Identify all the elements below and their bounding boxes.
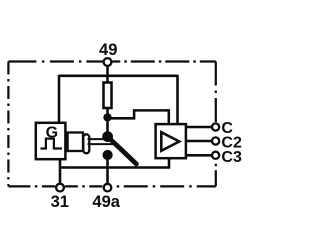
- switch lever (open, angled to lower right): [108, 137, 137, 164]
- relay housing outline left side (dash-dot): [7, 62, 9, 187]
- relay housing outline right side above terminal C (dash-dot): [215, 62, 217, 123]
- terminal 49a circle: [104, 184, 112, 192]
- relay housing outline bottom side left of terminal 31 (dash-dot): [8, 185, 55, 187]
- junction dot below resistor: [103, 113, 111, 121]
- wire: amplifier output to terminal C3: [187, 154, 213, 157]
- wire: pulse generator G down to terminal 31: [59, 160, 62, 184]
- wire: junction to amplifier second input (stepped): [108, 110, 169, 124]
- wire: riser from top bus down to pulse generator G: [58, 75, 61, 123]
- terminal 49 circle: [104, 58, 112, 66]
- svg-text:31: 31: [51, 193, 69, 211]
- relay coil actuator body: [68, 133, 83, 152]
- wire: amplifier output to terminal C2: [187, 140, 213, 143]
- relay housing outline right side below terminal C3 (dash-dot): [215, 161, 217, 187]
- wire: resistor to junction: [106, 108, 109, 118]
- svg-text:49: 49: [99, 41, 117, 59]
- amplifier triangle symbol: [161, 132, 179, 151]
- amplifier block U (electronic unit): [156, 124, 186, 158]
- wire: lower contact down to terminal 49a: [106, 155, 109, 183]
- switch lower contact dot: [103, 150, 113, 160]
- terminal 31 circle: [56, 184, 64, 192]
- wire: top supply bus from G riser to amplifier riser: [59, 75, 178, 78]
- switch pivot contact dot: [102, 131, 113, 142]
- svg-text:49a: 49a: [92, 193, 120, 211]
- wire: riser from top bus down to amplifier input: [176, 75, 179, 124]
- terminal C3 circle: [212, 152, 219, 159]
- relay coil actuator plunger cap: [83, 134, 89, 153]
- terminal C2 circle: [212, 137, 219, 144]
- relay housing outline top side left of terminal 49 (dash-dot): [8, 60, 102, 62]
- pulse generator block G: [36, 123, 66, 159]
- relay housing outline bottom side between terminals 31 and 49a (dash-dot): [65, 185, 103, 187]
- terminal C circle: [212, 123, 219, 130]
- square pulse symbol inside G block: [41, 139, 62, 149]
- wire: junction down to switch pivot contact: [106, 117, 109, 137]
- wire: amplifier output to terminal C: [187, 126, 213, 129]
- actuator fork lower rod to switch lever: [88, 143, 114, 145]
- resistor: [104, 83, 112, 109]
- svg-text:C3: C3: [221, 149, 242, 166]
- relay housing outline bottom side right of terminal 49a (dash-dot): [112, 185, 216, 187]
- wire: ground bus from terminal 31 riser to amplifier bottom: [60, 159, 169, 168]
- relay housing outline top side right of terminal 49 (dash-dot): [112, 60, 216, 62]
- wire: terminal 49 down to resistor: [106, 67, 109, 83]
- actuator fork upper rod to switch lever: [88, 138, 110, 140]
